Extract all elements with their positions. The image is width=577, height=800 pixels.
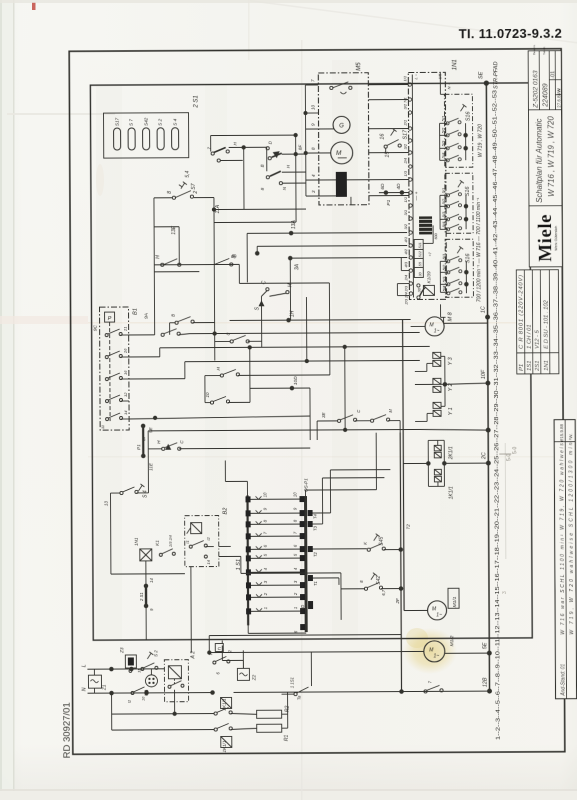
motor M1/1 (pump motor) — [404, 588, 461, 620]
svg-text:224089: 224089 — [542, 83, 549, 108]
svg-text:700 / 1200 min⁻¹ — W 716 — 700: 700 / 1200 min⁻¹ — W 716 — 700 / 1100 mi… — [476, 197, 483, 302]
wire row 430 — [148, 429, 420, 430]
title block: Miele logo — [529, 206, 562, 267]
svg-text:B: B — [171, 314, 176, 317]
signal lamp H1 — [143, 669, 157, 696]
svg-text:6,7: 6,7 — [381, 589, 386, 596]
svg-text:Teil-Nr.: Teil-Nr. — [542, 46, 546, 55]
svg-text:5/4: 5/4 — [441, 285, 446, 291]
svg-text:K1/39: K1/39 — [426, 271, 431, 283]
svg-text:P1: P1 — [519, 364, 525, 371]
B1 contact 11/14 — [106, 418, 109, 421]
svg-text:1~: 1~ — [436, 612, 442, 618]
svg-text:S17: S17 — [403, 129, 409, 140]
svg-text:1 CH / 01: 1 CH / 01 — [527, 324, 533, 349]
relay coil 2K1/1 — [434, 445, 454, 460]
svg-text:1/1: 1/1 — [403, 197, 408, 203]
pressure sensor P — [105, 312, 115, 322]
node 2C — [486, 428, 490, 432]
node 12B — [488, 689, 492, 693]
heating element R2 — [257, 706, 291, 719]
svg-text:1N1: 1N1 — [544, 360, 550, 371]
wire row to module — [232, 246, 407, 258]
svg-text:G: G — [339, 123, 344, 129]
svg-text:27.6.84: 27.6.84 — [556, 93, 561, 108]
svg-text:10: 10 — [292, 492, 297, 497]
P1 thick link — [142, 426, 144, 456]
switch S45 — [363, 534, 401, 552]
wire row 347 — [129, 356, 160, 358]
svg-text:5/1: 5/1 — [441, 188, 446, 194]
svg-text:2/3: 2/3 — [403, 285, 408, 292]
stator winding (black bar) — [336, 172, 347, 197]
svg-text:4/1: 4/1 — [403, 237, 408, 243]
svg-text:S12: S12 — [418, 251, 422, 257]
coil bracket wires — [403, 440, 488, 486]
speed annotation labels — [476, 124, 485, 302]
svg-text:— +: — + — [415, 191, 420, 201]
svg-text:W 716 , W 719 , W 720: W 716 , W 719 , W 720 — [547, 115, 556, 196]
ladder surround loop wires — [110, 433, 391, 586]
svg-text:S7: S7 — [191, 183, 197, 189]
svg-text:T3: T3 — [313, 525, 318, 531]
svg-text:W.: W. — [568, 434, 573, 439]
svg-text:P: P — [108, 316, 112, 322]
M5 left feeder wires — [305, 84, 318, 86]
pressure switch unit B1 — [93, 307, 151, 430]
svg-text:H: H — [287, 283, 293, 287]
svg-text:T2: T2 — [406, 524, 411, 530]
drawing sheet outer frame — [69, 49, 565, 755]
svg-text:1C: 1C — [481, 306, 487, 313]
red mark top left — [32, 2, 36, 10]
contact tick marks — [246, 496, 306, 614]
switch mid cluster b — [210, 401, 213, 404]
door switch wire runs — [111, 546, 341, 621]
ladder bottom wire — [248, 632, 306, 634]
svg-text:L ~: L ~ — [413, 73, 418, 79]
svg-text:S17: S17 — [115, 117, 120, 126]
speed selector contact bank S16 (lower) — [441, 239, 473, 297]
fold line top right — [250, 0, 577, 44]
wire row 416 — [129, 416, 310, 419]
svg-text:1N1: 1N1 — [452, 59, 458, 70]
svg-text:3/1: 3/1 — [403, 210, 408, 216]
svg-text:S11: S11 — [418, 242, 422, 248]
svg-text:5/1: 5/1 — [441, 116, 446, 122]
svg-text:M: M — [388, 409, 393, 413]
interference filter Z1 — [88, 669, 107, 693]
tap T4 wire — [313, 512, 331, 514]
wire 3A row — [288, 256, 407, 296]
svg-text:12B: 12B — [482, 677, 488, 687]
svg-text:16: 16 — [380, 134, 386, 140]
svg-text:5/3: 5/3 — [441, 276, 446, 282]
centrifugal switch inside M5 — [330, 86, 333, 89]
speed selector contact bank S16 (upper) — [440, 94, 472, 167]
svg-text:2: 2 — [193, 191, 199, 195]
svg-text:1K1/1: 1K1/1 — [448, 486, 454, 499]
svg-text:1: 1 — [263, 607, 268, 609]
wire 13A long run — [247, 219, 407, 282]
node 10F — [486, 381, 490, 385]
tap T3 wire — [313, 523, 323, 525]
svg-text:T2: T2 — [313, 551, 318, 557]
svg-text:21: 21 — [123, 327, 128, 332]
svg-text:M5: M5 — [356, 62, 362, 71]
svg-text:H1: H1 — [144, 689, 150, 695]
svg-text:2 S1: 2 S1 — [139, 592, 144, 602]
heating element R1 — [257, 724, 290, 741]
svg-text:S5: S5 — [418, 262, 422, 266]
svg-text:S 7: S 7 — [129, 119, 134, 126]
switch cluster 3E right — [317, 420, 337, 422]
svg-text:STR-PFAD: STR-PFAD — [493, 61, 499, 89]
tap T2 wire to switch S45 — [313, 548, 367, 550]
svg-text:T1: T1 — [313, 581, 318, 586]
svg-text:4D: 4D — [396, 183, 402, 190]
motor M8 (pump) — [411, 312, 488, 336]
svg-text:1K1/1: 1K1/1 — [222, 740, 227, 752]
wire row 454 — [147, 449, 149, 493]
sheet title TI. 11.0723-9.3.2 — [459, 26, 562, 42]
module top wire to node SE — [440, 72, 486, 83]
svg-text:600: 600 — [434, 233, 438, 239]
svg-text:26: 26 — [123, 348, 128, 354]
svg-text:M: M — [336, 150, 342, 157]
loop from OS-P1 to top right — [304, 490, 306, 496]
module internal terminal grid — [414, 239, 423, 277]
svg-text:GND: GND — [300, 605, 305, 614]
svg-text:S 4: S 4 — [173, 118, 178, 125]
svg-text:11E: 11E — [148, 462, 153, 471]
svg-text:t1: t1 — [185, 540, 190, 543]
switch row 448 — [162, 447, 165, 450]
main feeder double wire — [394, 320, 412, 692]
svg-text:Schaltplan für Automatic: Schaltplan für Automatic — [535, 118, 544, 202]
speed selector contact bank S16 (middle) — [441, 173, 473, 233]
svg-text:Änd-Stand: 01: Änd-Stand: 01 — [559, 664, 566, 697]
node SE — [484, 81, 488, 85]
svg-text:2C: 2C — [481, 452, 487, 460]
svg-text:5/2: 5/2 — [441, 127, 446, 133]
B1 contact 12 — [105, 400, 108, 403]
svg-text:5/3: 5/3 — [441, 211, 446, 217]
svg-text:Z1: Z1 — [101, 684, 107, 691]
svg-text:13: 13 — [104, 501, 109, 507]
pencil annotations — [501, 447, 519, 595]
svg-text:P1: P1 — [136, 444, 141, 450]
svg-text:3/2: 3/2 — [403, 223, 408, 229]
svg-text:3: 3 — [502, 591, 508, 594]
svg-text:2/4: 2/4 — [403, 274, 408, 281]
svg-text:10: 10 — [205, 392, 210, 398]
svg-text:N: N — [82, 687, 88, 691]
svg-text:P1: P1 — [386, 199, 392, 205]
module terminals — [408, 83, 413, 295]
svg-text:B2: B2 — [223, 507, 229, 515]
svg-text:S16: S16 — [465, 112, 471, 122]
svg-text:T4: T4 — [313, 513, 318, 519]
svg-text:TI. 11.0723-9.3.2: TI. 11.0723-9.3.2 — [459, 26, 562, 42]
svg-text:8: 8 — [167, 191, 173, 194]
switch 1 1S1 Ta — [281, 652, 311, 700]
svg-text:30: 30 — [418, 272, 422, 276]
svg-text:SE: SE — [478, 71, 484, 79]
M5 right wires to module — [368, 84, 408, 86]
horizontal crease center — [88, 322, 558, 324]
svg-text:10: 10 — [262, 492, 267, 497]
revision box right edge — [554, 420, 576, 699]
svg-text:15.9.88: 15.9.88 — [559, 423, 564, 438]
switch on row 333 — [161, 333, 164, 336]
switch pair row 322 — [175, 321, 178, 324]
svg-text:5,4: 5,4 — [185, 170, 191, 177]
svg-text:1~: 1~ — [433, 653, 439, 659]
control relay unit A2 — [164, 651, 196, 702]
svg-text:10F: 10F — [481, 369, 487, 379]
svg-text:3/2: 3/2 — [403, 143, 408, 149]
svg-text:R1: R1 — [284, 735, 290, 742]
svg-text:1/5: 1/5 — [437, 73, 442, 79]
svg-text:B1: B1 — [133, 308, 139, 315]
title block: drawing number table — [528, 44, 562, 110]
svg-text:Y 1: Y 1 — [448, 407, 454, 415]
svg-text:5E: 5E — [482, 642, 488, 649]
suppressor Z3 — [119, 647, 141, 673]
heater circuit wires — [112, 693, 214, 731]
svg-text:5/2: 5/2 — [441, 264, 446, 270]
svg-text:9A: 9A — [144, 313, 150, 319]
left rail — [246, 495, 249, 625]
GND tick — [300, 510, 314, 630]
svg-text:Z3: Z3 — [119, 647, 125, 654]
ladder bottom feed wire — [208, 635, 402, 669]
module lower terminal stub wires — [397, 258, 409, 296]
svg-text:13E: 13E — [171, 225, 177, 235]
svg-text:K1: K1 — [155, 540, 160, 546]
svg-text:M 8: M 8 — [448, 312, 454, 321]
svg-text:15: 15 — [385, 151, 391, 158]
svg-text:5-0: 5-0 — [512, 447, 518, 454]
switch S17 (spin select) — [380, 129, 409, 158]
suppressor Z2 — [222, 660, 257, 681]
B1 contact 21 — [105, 334, 108, 337]
svg-text:5/4: 5/4 — [441, 152, 446, 158]
svg-text:2/3 2/4: 2/3 2/4 — [403, 292, 408, 306]
relay 1N1-K1 door coil — [134, 535, 176, 640]
wire row 361 — [129, 378, 185, 380]
svg-text:Miele: Miele — [535, 214, 556, 262]
wire row 388 with node 10D — [250, 387, 310, 389]
svg-text:2 S1: 2 S1 — [193, 95, 199, 108]
mains terminal L — [81, 664, 164, 671]
svg-text:1/1: 1/1 — [402, 76, 407, 82]
svg-text:Y 3: Y 3 — [448, 357, 454, 365]
svg-text:1: 1 — [293, 607, 298, 609]
node P1 supply +/- — [379, 183, 420, 206]
svg-text:2S1: 2S1 — [535, 360, 541, 371]
electronic module 1N1 — [402, 59, 459, 305]
svg-text:3/2 7/1: 3/2 7/1 — [402, 97, 407, 109]
program selector panel 2S1 — [103, 95, 199, 158]
lower left loop wires — [111, 566, 312, 693]
relay contact 2K1/1 (heater) — [214, 697, 257, 715]
wire row 333 — [129, 334, 155, 336]
svg-text:S42: S42 — [144, 117, 149, 126]
central wiring mesh — [128, 263, 430, 493]
relay coil 1K1/1 — [434, 469, 454, 499]
motor M1/2 (spin motor) — [209, 635, 489, 663]
switch S2 mains contact — [141, 650, 159, 671]
svg-text:2K1/1: 2K1/1 — [448, 446, 454, 460]
tap T1 wire — [313, 577, 339, 579]
svg-text:11: 11 — [100, 425, 105, 429]
yellow stain near motor M1/2 — [403, 628, 457, 674]
switch S7 with key symbol — [154, 182, 214, 200]
svg-text:3A: 3A — [294, 263, 300, 270]
svg-text:4/3: 4/3 — [403, 261, 408, 267]
svg-text:Werk Gütersloh: Werk Gütersloh — [554, 226, 558, 251]
node 1C — [486, 315, 490, 319]
svg-text:4/2: 4/2 — [403, 248, 408, 254]
rungs — [250, 499, 305, 611]
switch S42 — [341, 573, 401, 596]
svg-text:14: 14 — [149, 578, 154, 583]
motor unit M5 (drive motor with tacho) — [304, 62, 409, 206]
node 5E — [487, 651, 491, 655]
svg-text:C: C — [261, 280, 267, 284]
switch pair row 341 — [230, 340, 233, 343]
svg-text:2/4: 2/4 — [403, 157, 408, 164]
interlock unit B2 — [185, 507, 229, 567]
switch mid cluster a — [220, 374, 223, 377]
svg-text:V12 - 5: V12 - 5 — [535, 329, 541, 348]
relay K1/39 — [423, 285, 434, 295]
svg-text:Benenn.: Benenn. — [532, 44, 536, 55]
crease band upper left — [7, 113, 115, 115]
svg-text:5/1: 5/1 — [441, 254, 446, 260]
ladder top feeder — [246, 481, 248, 495]
svg-text:E D SU - 101 . 102: E D SU - 101 . 102 — [543, 299, 549, 348]
switch contact t2 on N rail — [128, 687, 149, 703]
solenoid valve Y2 — [415, 378, 454, 392]
switch on N rail right — [424, 690, 427, 693]
module internal hatched block — [419, 216, 432, 234]
motor M1 — [331, 142, 353, 164]
svg-text:3E: 3E — [321, 411, 326, 418]
solenoid valve Y1 — [415, 402, 454, 421]
vertical crease center — [301, 40, 303, 800]
bottom paper edge shadow — [0, 789, 577, 791]
svg-text:B: B — [260, 164, 265, 167]
switch cluster upper center — [154, 254, 329, 323]
svg-text:-01: -01 — [550, 71, 556, 79]
svg-text:1N1: 1N1 — [134, 537, 139, 546]
title block: Schaltplan fuer Automatic — [528, 110, 562, 206]
wire 1H long run — [230, 310, 425, 323]
svg-text:W 719 , W 720: W 719 , W 720 — [478, 124, 484, 157]
bank feeder wires — [439, 83, 448, 317]
svg-text:8F: 8F — [298, 145, 303, 150]
svg-text:Z-5202 0163: Z-5202 0163 — [532, 70, 539, 109]
switch on N rail (door) — [208, 639, 232, 674]
B1 contact 26 — [105, 356, 108, 359]
svg-text:S 2: S 2 — [158, 118, 163, 125]
wire upper-left loop — [154, 170, 222, 272]
svg-text:K: K — [363, 542, 368, 545]
solenoid valve Y3 — [415, 352, 454, 371]
svg-text:10D: 10D — [293, 376, 299, 385]
svg-text:L: L — [81, 664, 87, 667]
program timer contact ladder 1S1 — [225, 460, 318, 633]
svg-text:1/3: 1/3 — [403, 170, 408, 176]
svg-text:2/3 2/4: 2/3 2/4 — [169, 535, 173, 548]
right rail — [304, 496, 308, 632]
svg-text:1 1S1: 1 1S1 — [289, 677, 294, 688]
svg-text:W 716 war SCHL 1100 min¹ W 7: W 716 war SCHL 1100 min¹ W 719, W 720 wa… — [559, 438, 566, 634]
parts list table P1/1S1/2S1/1N1 — [516, 270, 559, 374]
cam follower arrows and numbers — [256, 496, 263, 611]
svg-text:H: H — [155, 255, 161, 259]
svg-text:W 719, W 720 wahlweise SCHL 1: W 719, W 720 wahlweise SCHL 1200/1300 mi… — [568, 438, 575, 634]
tacho generator G — [333, 116, 350, 133]
svg-text:9C: 9C — [93, 324, 99, 331]
svg-text:S 4: S 4 — [142, 490, 148, 498]
svg-text:S16: S16 — [465, 187, 471, 197]
svg-text:W: W — [556, 88, 562, 93]
valve bus connections — [148, 356, 488, 432]
svg-text:5/4: 5/4 — [441, 221, 446, 227]
svg-text:9E: 9E — [148, 426, 153, 433]
heater return wire — [282, 692, 288, 728]
svg-text:10: 10 — [310, 104, 315, 110]
mains terminal N — [81, 680, 489, 695]
svg-text:M1/1: M1/1 — [452, 596, 458, 607]
drawing sheet inner frame — [90, 83, 532, 640]
svg-text:1~: 1~ — [434, 328, 440, 334]
left paper edge shadow — [0, 0, 13, 800]
svg-text:C R 8001 (220V-240V): C R 8001 (220V-240V) — [518, 275, 524, 349]
svg-text:Ta: Ta — [297, 695, 302, 700]
svg-text:5/3: 5/3 — [441, 140, 446, 146]
switch S4 lower left — [103, 484, 148, 561]
svg-text:2/1: 2/1 — [403, 120, 408, 127]
faint stains left — [96, 164, 104, 196]
reversing switch cluster center top — [207, 133, 306, 222]
STR-PFAD numbered path line 1..53 — [478, 61, 503, 740]
svg-text:6D: 6D — [380, 183, 386, 190]
svg-text:1S1: 1S1 — [527, 361, 533, 371]
svg-text:S 2: S 2 — [153, 650, 158, 657]
left riser wires — [153, 272, 155, 335]
svg-text:RD 30927/01: RD 30927/01 — [62, 702, 73, 758]
svg-text:Z2: Z2 — [251, 674, 257, 681]
svg-text:5/2: 5/2 — [441, 198, 446, 204]
svg-text:M1/2: M1/2 — [449, 635, 455, 646]
relay contact 1K1/1 (heater) — [214, 723, 257, 752]
B1 contact 16 — [105, 378, 108, 381]
scanner streak bands — [96, 84, 122, 640]
